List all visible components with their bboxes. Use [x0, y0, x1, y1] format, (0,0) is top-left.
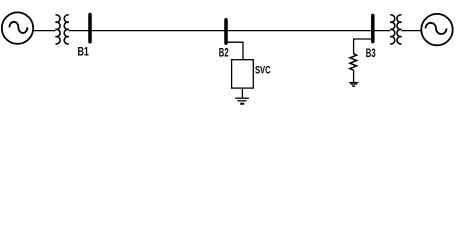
wire G1 to T1 — [33, 30, 56, 32]
wire bus B3 to shunt — [354, 39, 371, 54]
generator G1 sine wave — [9, 22, 27, 33]
bus B3 — [371, 16, 375, 42]
svg-text:B2: B2 — [219, 46, 229, 60]
transformer T2 left winding — [390, 15, 395, 44]
transformer T1 right winding — [64, 15, 69, 44]
bus B2 — [224, 20, 228, 43]
generator G2 sine wave — [426, 23, 447, 34]
transformer T1 left winding — [56, 15, 61, 44]
wire T2 to G2 — [402, 30, 423, 32]
ground G-SVC — [235, 98, 249, 104]
generator G1 circle — [2, 12, 33, 43]
shunt reactor zigzag — [350, 54, 357, 71]
SVC box — [232, 60, 254, 88]
wire bus B2 to SVC box — [228, 42, 244, 60]
wire bus B3 to T2 — [373, 30, 390, 32]
wire T1 to bus B1 — [69, 30, 90, 32]
bus B1 — [88, 15, 92, 42]
wire SVC box to ground — [241, 88, 243, 98]
svg-text:SVC: SVC — [255, 65, 271, 77]
ground G-shunt — [349, 83, 358, 87]
svg-text:B1: B1 — [78, 45, 90, 59]
svg-text:B3: B3 — [366, 46, 376, 60]
transmission line B1 to B3 — [90, 30, 373, 32]
transformer T2 right winding — [397, 15, 402, 44]
generator G2 circle — [421, 14, 452, 45]
wire shunt to ground — [353, 70, 355, 82]
